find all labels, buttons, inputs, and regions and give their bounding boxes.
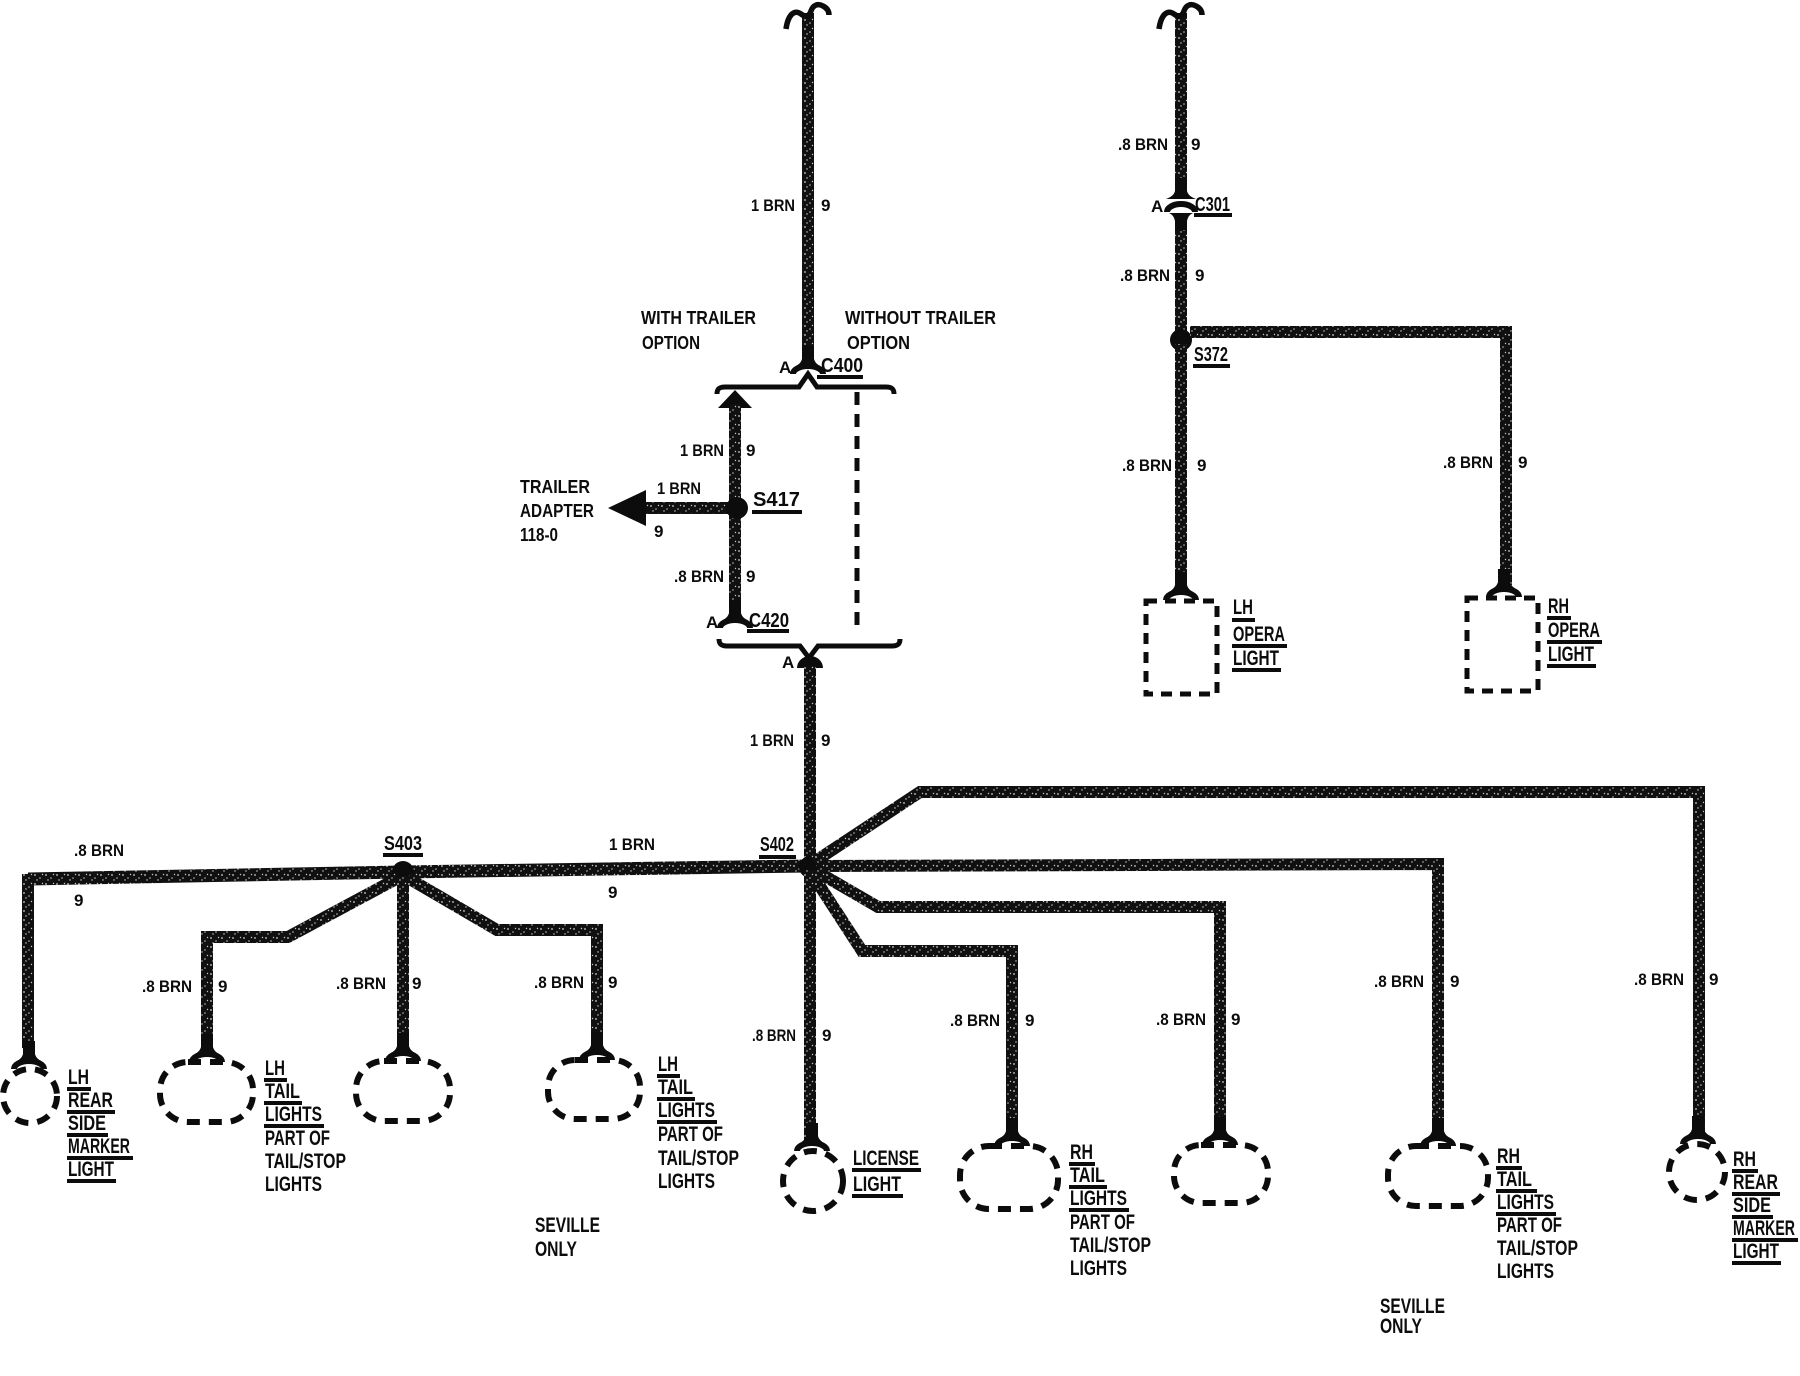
label LH TAIL LIGHTS PART OF TAIL/STOP LIGHTS (right copy)	[657, 1053, 739, 1193]
svg-text:A: A	[779, 358, 791, 377]
svg-text:C301: C301	[1195, 194, 1230, 216]
svg-text:S372: S372	[1194, 344, 1228, 366]
license light	[783, 1151, 843, 1211]
svg-text:.8 BRN: .8 BRN	[336, 974, 386, 993]
connector at RH tail light (straight)	[1423, 1118, 1453, 1146]
connector C420 pin A symbol	[720, 600, 750, 628]
svg-text:LIGHTS: LIGHTS	[658, 1170, 715, 1193]
svg-text:SIDE: SIDE	[68, 1112, 106, 1135]
svg-text:OPERA: OPERA	[1233, 623, 1285, 646]
svg-text:LICENSE: LICENSE	[853, 1147, 919, 1170]
wire break symbol at top right feed	[1159, 5, 1202, 29]
splice S403	[392, 861, 414, 883]
svg-text:.8 BRN: .8 BRN	[950, 1011, 1000, 1030]
svg-text:LIGHTS: LIGHTS	[658, 1099, 715, 1122]
svg-text:9: 9	[1025, 1011, 1034, 1030]
LH opera light box	[1146, 601, 1217, 694]
svg-text:.8 BRN: .8 BRN	[752, 1026, 796, 1045]
svg-text:1 BRN: 1 BRN	[657, 479, 701, 498]
svg-text:S402: S402	[760, 834, 794, 856]
wire: S403 branch straight down	[397, 876, 409, 1043]
svg-text:WITH TRAILER: WITH TRAILER	[641, 308, 756, 328]
svg-text:9: 9	[74, 891, 83, 910]
near RH tail light (oval)	[960, 1146, 1058, 1209]
connector at near RH tail light	[997, 1118, 1027, 1146]
splice S417	[726, 497, 748, 519]
svg-text:9: 9	[822, 1026, 831, 1045]
svg-text:.8 BRN: .8 BRN	[142, 977, 192, 996]
svg-text:.8 BRN: .8 BRN	[534, 973, 584, 992]
svg-text:LIGHTS: LIGHTS	[1497, 1191, 1554, 1214]
wire: feed to opera lights (top right, .8 BRN)	[1175, 13, 1187, 180]
svg-text:OPTION: OPTION	[642, 333, 700, 353]
svg-text:9: 9	[1518, 453, 1527, 472]
svg-text:TAIL: TAIL	[1070, 1164, 1105, 1187]
svg-text:PART OF: PART OF	[1497, 1214, 1562, 1237]
svg-text:1 BRN: 1 BRN	[609, 835, 655, 854]
svg-text:PART OF: PART OF	[1070, 1211, 1135, 1234]
dashed wire: without trailer option bypass	[855, 392, 860, 632]
middle RH tail light (oval)	[1174, 1145, 1268, 1203]
svg-text:OPTION: OPTION	[847, 333, 910, 353]
first LH tail light (oval)	[160, 1062, 253, 1122]
svg-text:WITHOUT TRAILER: WITHOUT TRAILER	[845, 308, 996, 328]
arrow up to C400-A (with trailer path)	[718, 390, 752, 408]
label RH TAIL LIGHTS PART OF TAIL/STOP LIGHTS (right)	[1496, 1145, 1578, 1283]
svg-text:C420: C420	[749, 610, 789, 632]
svg-text:TAIL: TAIL	[1497, 1168, 1532, 1191]
svg-text:RH: RH	[1548, 595, 1569, 618]
svg-text:118-0: 118-0	[520, 525, 558, 545]
brace joining both paths above A (rear harness)	[719, 639, 900, 658]
svg-text:9: 9	[1191, 135, 1200, 154]
svg-text:9: 9	[1231, 1010, 1240, 1029]
svg-text:A: A	[782, 653, 794, 672]
svg-text:TAIL: TAIL	[658, 1076, 693, 1099]
wire: S402 branch to RH rear side marker (top run)	[814, 792, 1699, 1135]
connector at license light	[797, 1123, 827, 1151]
svg-text:9: 9	[1197, 456, 1206, 475]
label RH OPERA LIGHT	[1547, 595, 1602, 668]
connector dome at rear harness	[797, 656, 823, 668]
wire: feed from tail light switch (top center, 1 BRN)	[802, 13, 814, 360]
svg-text:ONLY: ONLY	[1380, 1315, 1422, 1338]
svg-text:.8 BRN: .8 BRN	[74, 841, 124, 860]
svg-text:9: 9	[746, 441, 755, 460]
svg-text:MARKER: MARKER	[68, 1135, 130, 1158]
svg-text:.8 BRN: .8 BRN	[1634, 970, 1684, 989]
svg-text:LH: LH	[265, 1057, 285, 1080]
wire: C400-A down to S417 (1 BRN)	[729, 404, 741, 614]
connector at LH opera light	[1166, 572, 1196, 600]
label RH REAR SIDE MARKER LIGHT	[1732, 1148, 1798, 1265]
svg-text:TAIL/STOP: TAIL/STOP	[1070, 1234, 1151, 1257]
svg-text:S403: S403	[384, 833, 422, 855]
wire: S402 down to license light	[804, 870, 816, 1143]
wire: S372 down to LH opera light	[1175, 344, 1187, 588]
wire: S402 branch to RH tail light (straight run)	[818, 864, 1438, 1138]
note SEVILLE ONLY (left)	[535, 1214, 600, 1261]
svg-text:TAIL/STOP: TAIL/STOP	[658, 1147, 739, 1170]
svg-text:TAIL/STOP: TAIL/STOP	[265, 1150, 346, 1173]
note SEVILLE ONLY (right)	[1380, 1295, 1445, 1338]
svg-text:LIGHTS: LIGHTS	[265, 1103, 322, 1126]
wire: bus left end down to LH rear side marker	[22, 874, 34, 1048]
connector C400 pin A symbol	[793, 346, 823, 374]
svg-text:.8 BRN: .8 BRN	[1443, 453, 1493, 472]
svg-text:.8 BRN: .8 BRN	[1122, 456, 1172, 475]
svg-text:TAIL: TAIL	[265, 1080, 300, 1103]
connector at LH rear side marker	[14, 1041, 44, 1069]
svg-text:9: 9	[218, 977, 227, 996]
svg-text:LH: LH	[1233, 596, 1253, 619]
wire: down to S402 (1 BRN)	[804, 666, 816, 866]
svg-text:LIGHT: LIGHT	[1233, 647, 1279, 670]
label LH REAR SIDE MARKER LIGHT	[67, 1066, 133, 1183]
svg-text:9: 9	[746, 567, 755, 586]
wire: S417 to trailer adapter (arrow left)	[643, 502, 733, 514]
wire: main rear bus S402 to S403 to LH side	[28, 866, 808, 879]
svg-text:9: 9	[821, 196, 830, 215]
connector at middle RH tail light	[1205, 1117, 1235, 1145]
svg-text:9: 9	[412, 974, 421, 993]
svg-text:PART OF: PART OF	[265, 1127, 330, 1150]
wire: S403 branch to third LH tail light	[408, 878, 597, 1042]
svg-text:9: 9	[821, 731, 830, 750]
svg-text:.8 BRN: .8 BRN	[1120, 266, 1170, 285]
label LH TAIL LIGHTS PART OF TAIL/STOP LIGHTS	[264, 1057, 346, 1196]
svg-text:LIGHT: LIGHT	[1548, 643, 1594, 666]
wire: S372 to RH opera light	[1190, 332, 1506, 585]
RH rear side marker light	[1669, 1144, 1725, 1200]
svg-text:TAIL/STOP: TAIL/STOP	[1497, 1237, 1578, 1260]
connector C301 pin A symbol	[1166, 178, 1196, 232]
splice S402	[799, 856, 821, 878]
second LH tail light (oval)	[356, 1061, 450, 1121]
svg-text:C400: C400	[821, 355, 863, 377]
svg-text:9: 9	[654, 522, 663, 541]
svg-text:A: A	[1151, 197, 1163, 216]
wire: S402 branch to middle RH tail light	[816, 871, 1220, 1136]
arrowhead to trailer adapter	[608, 490, 646, 526]
svg-text:ONLY: ONLY	[535, 1238, 577, 1261]
svg-text:1 BRN: 1 BRN	[750, 731, 794, 750]
svg-text:OPERA: OPERA	[1548, 619, 1600, 642]
wire: C301 to S372	[1175, 230, 1187, 340]
svg-text:MARKER: MARKER	[1733, 1217, 1795, 1240]
svg-text:.8 BRN: .8 BRN	[1374, 972, 1424, 991]
svg-text:RH: RH	[1497, 1145, 1520, 1168]
svg-text:1 BRN: 1 BRN	[751, 196, 795, 215]
svg-text:LIGHTS: LIGHTS	[1070, 1187, 1127, 1210]
svg-text:SEVILLE: SEVILLE	[535, 1214, 600, 1237]
svg-text:9: 9	[608, 973, 617, 992]
svg-text:LIGHT: LIGHT	[68, 1158, 114, 1181]
svg-text:.8 BRN: .8 BRN	[1118, 135, 1168, 154]
splice S372	[1170, 329, 1192, 351]
svg-text:LIGHT: LIGHT	[1733, 1240, 1779, 1263]
wire: S402 branch to near RH tail light	[812, 874, 1012, 1135]
svg-text:RH: RH	[1733, 1148, 1756, 1171]
svg-text:LIGHTS: LIGHTS	[1497, 1260, 1554, 1283]
svg-text:LIGHT: LIGHT	[853, 1173, 901, 1196]
svg-text:LIGHTS: LIGHTS	[1070, 1257, 1127, 1280]
svg-text:RH: RH	[1070, 1141, 1093, 1164]
LH rear side marker light	[3, 1069, 57, 1123]
connector at second LH tail light	[388, 1033, 418, 1061]
svg-text:1 BRN: 1 BRN	[680, 441, 724, 460]
label LICENSE LIGHT	[852, 1147, 921, 1198]
svg-text:PART OF: PART OF	[658, 1123, 723, 1146]
svg-text:9: 9	[1709, 970, 1718, 989]
svg-text:S417: S417	[753, 489, 800, 511]
svg-text:A: A	[706, 613, 718, 632]
RH tail light oval (straight run)	[1388, 1146, 1488, 1206]
connector at RH rear side marker	[1683, 1116, 1713, 1144]
third LH tail light (oval)	[548, 1060, 640, 1119]
svg-text:TRAILER: TRAILER	[520, 477, 590, 497]
svg-text:9: 9	[1450, 972, 1459, 991]
svg-text:LH: LH	[658, 1053, 678, 1076]
wire: S403 branch to first LH tail light	[207, 878, 398, 1044]
RH opera light box	[1467, 598, 1538, 691]
svg-text:REAR: REAR	[1733, 1171, 1778, 1194]
label LH OPERA LIGHT	[1232, 596, 1287, 672]
connector at RH opera light	[1489, 569, 1519, 597]
svg-text:9: 9	[608, 883, 617, 902]
svg-text:ADAPTER: ADAPTER	[520, 501, 594, 521]
wire break symbol at top of center feed	[786, 5, 829, 29]
svg-text:LH: LH	[68, 1066, 89, 1089]
svg-text:.8 BRN: .8 BRN	[674, 567, 724, 586]
svg-text:SIDE: SIDE	[1733, 1194, 1771, 1217]
connector at third LH tail light	[582, 1032, 612, 1060]
svg-text:REAR: REAR	[68, 1089, 113, 1112]
svg-text:LIGHTS: LIGHTS	[265, 1173, 322, 1196]
svg-text:9: 9	[1195, 266, 1204, 285]
brace under C400 (splits with/without trailer)	[717, 374, 894, 394]
label RH TAIL LIGHTS PART OF TAIL/STOP LIGHTS (near)	[1069, 1141, 1151, 1280]
connector at first LH tail light	[192, 1034, 222, 1062]
svg-text:.8 BRN: .8 BRN	[1156, 1010, 1206, 1029]
